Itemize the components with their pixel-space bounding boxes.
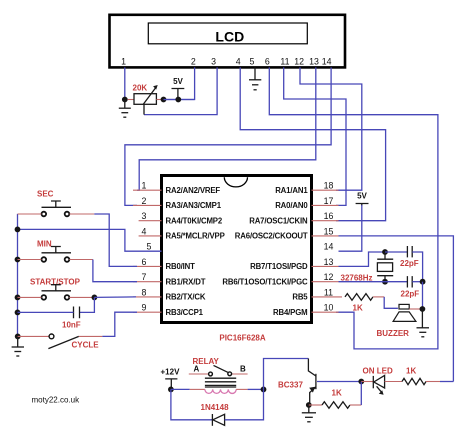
svg-text:RB2/TX/CK: RB2/TX/CK [166,293,206,302]
svg-text:18: 18 [324,181,334,191]
svg-text:7: 7 [142,272,147,282]
svg-text:ON LED: ON LED [363,367,393,376]
wire LCD pin2 down-left to 5V node [164,67,195,99]
resistor 1K base pulldown [309,382,362,409]
node dot caps junction [420,279,426,285]
svg-text:32768Hz: 32768Hz [341,273,373,282]
svg-text:RA6/OSC2/CKOOUT: RA6/OSC2/CKOOUT [235,232,308,241]
svg-text:BUZZER: BUZZER [377,329,410,338]
wire LCD pin13 to PIC pin1 RA2 [137,67,316,190]
wire LCD pin6 to PIC pin10 RB4 [269,67,438,349]
wire PIC pin15 RA6 to ON LED resistor [339,236,454,382]
node dot 5V tap [175,97,181,103]
svg-text:SEC: SEC [37,190,54,199]
svg-text:RA1/AN1: RA1/AN1 [275,186,308,195]
svg-text:6: 6 [265,57,270,67]
relay core lines [205,378,236,387]
svg-text:4: 4 [142,226,147,236]
wire LCD pin1 down to pot node [124,67,126,99]
wire LCD pin11 to PIC pin17 RA0 [284,67,346,205]
svg-text:3: 3 [211,57,216,67]
wire LCD pin3 to pot wiper [144,67,217,114]
pot wiper stem [143,104,145,114]
wire START node down to capacitor [80,297,95,312]
wire MIN to PIC pin7 RB1 [93,260,137,282]
LCD pin numbers [121,57,331,67]
node dot buzzer right [420,306,426,312]
svg-text:+12V: +12V [161,368,181,377]
svg-text:6: 6 [142,257,147,267]
svg-text:1: 1 [142,181,147,191]
node dot START right [92,295,98,301]
svg-text:15: 15 [324,226,334,236]
svg-text:RB4/PGM: RB4/PGM [273,308,307,317]
svg-text:RA5/*MCLR/VPP: RA5/*MCLR/VPP [166,232,225,241]
svg-text:RA7/OSC1/CKIN: RA7/OSC1/CKIN [249,216,308,225]
wire 12V node down to diode [171,389,213,419]
ground at emitter [302,405,316,422]
PIC right pin numbers [324,181,334,313]
svg-text:moty22.co.uk: moty22.co.uk [32,395,81,404]
ground below pot left node [119,100,131,118]
capacitor C1 22pF top [385,246,423,282]
svg-text:CYCLE: CYCLE [72,341,100,350]
ground at LCD pin 5 [249,67,261,89]
svg-text:22pF: 22pF [401,290,420,299]
svg-text:20K: 20K [133,84,148,93]
svg-text:BC337: BC337 [278,381,303,390]
wire PIC pin13 to crystal top node [339,252,385,266]
ground at rail bottom [12,336,24,356]
wire base to LED node [317,381,361,383]
ground at buzzer [417,309,430,337]
svg-text:LCD: LCD [215,28,244,44]
svg-text:9: 9 [142,303,147,313]
wire START to PIC pin8 RB2 [94,296,136,299]
svg-text:MIN: MIN [37,240,52,249]
node dot rail VSS [15,227,21,233]
svg-text:1K: 1K [353,304,363,313]
wire LCD pin12 to PIC pin18 RA1 [300,67,362,190]
wire LCD pin14 to PIC pin2 RA3 [125,67,331,205]
node dot crystal bottom [382,279,388,285]
capacitor C3 10nF [18,307,80,319]
node dot coil right [261,387,267,393]
node dot pot right [161,97,167,103]
svg-text:8: 8 [142,287,147,297]
svg-text:1K: 1K [332,389,342,398]
diode D1 1N4148 [212,359,308,426]
PIC left pin numbers [142,181,152,313]
wire CYCLE to PIC pin9 RB3 [102,312,137,336]
5V supply at pot [172,77,185,100]
svg-text:RB3/CCP1: RB3/CCP1 [166,308,204,317]
svg-text:2: 2 [191,57,196,67]
svg-text:3: 3 [142,211,147,221]
svg-text:11: 11 [280,57,289,67]
svg-text:RA3/AN3/CMP1: RA3/AN3/CMP1 [166,201,222,210]
svg-text:1K: 1K [406,367,416,376]
svg-text:22pF: 22pF [400,259,419,268]
PIC pin labels left [166,186,225,317]
node dot 12V [168,387,174,393]
node dot base LED [358,379,364,385]
wire caps junction down to buzzer node [422,282,424,309]
svg-text:14: 14 [324,242,334,252]
svg-text:10: 10 [324,303,334,313]
svg-text:RB5: RB5 [292,293,308,302]
svg-text:5: 5 [147,242,152,252]
pushbutton SEC [18,190,95,217]
node dot rail CYCLE [15,334,21,340]
svg-text:B: B [240,365,246,374]
node dot rail cap [15,310,21,316]
crystal X1 32768Hz [377,252,393,282]
wire LCD pin4 to PIC pin16 RA7 [240,67,385,220]
svg-text:RA0/AN0: RA0/AN0 [275,201,308,210]
buzzer LS1 [393,304,422,321]
capacitor C2 22pF bottom [385,276,423,287]
node dot pot left [122,97,128,103]
svg-text:12: 12 [324,272,334,282]
5V supply at PIC pin14 [339,192,369,252]
svg-text:10nF: 10nF [62,321,81,330]
LCD module box [110,15,346,68]
left ground rail [17,214,19,337]
resistor 1K buzzer from pin11 RB5 [345,294,398,309]
node dot emitter ground [306,402,312,408]
wire crystal bottom to PIC pin12 [339,281,386,283]
svg-text:1N4148: 1N4148 [201,403,230,412]
svg-text:1: 1 [121,57,126,67]
svg-text:A: A [194,365,200,374]
svg-text:RB0/INT: RB0/INT [166,262,196,271]
LED D2 ON LED [361,367,402,395]
PIC left pin stubs [133,190,162,312]
svg-text:13: 13 [324,257,334,267]
svg-text:RB7/T1OSI/PGD: RB7/T1OSI/PGD [250,262,308,271]
svg-text:16: 16 [324,211,334,221]
svg-text:5: 5 [249,57,254,67]
PIC pin5 VSS wire from ground rail [18,229,162,251]
+12V supply [161,368,181,390]
svg-text:12: 12 [294,57,304,67]
svg-text:11: 11 [324,287,333,297]
wire SEC to PIC pin6 RB0 [94,214,137,266]
node dot rail START [15,295,21,301]
PIC pin labels right [222,186,308,317]
svg-text:RB1/RX/DT: RB1/RX/DT [166,277,206,286]
resistor 1K LED [402,378,453,384]
pushbutton START/STOP [18,278,95,300]
PIC right pin stubs [312,190,343,312]
relay contacts A and B [189,365,248,376]
switch CYCLE [18,334,103,349]
svg-text:RB6/T1OSO/T1CKI/PGC: RB6/T1OSO/T1CKI/PGC [222,277,308,286]
relay coil RL1 [171,389,264,393]
transistor Q1 BC337 [278,359,316,406]
svg-text:5V: 5V [173,77,183,86]
svg-text:5V: 5V [357,192,367,201]
svg-text:2: 2 [142,196,147,206]
node dot crystal top [382,249,388,255]
svg-text:13: 13 [309,57,319,67]
potentiometer 20K [128,85,164,105]
pushbutton MIN [18,240,93,262]
node dot rail MIN [15,257,21,263]
PIC16F628A IC body U1 [162,176,312,323]
svg-text:4: 4 [236,57,241,67]
wire pot right to 5V tap [164,99,195,101]
svg-text:RA2/AN2/VREF: RA2/AN2/VREF [166,186,221,195]
svg-text:RA4/T0KI/CMP2: RA4/T0KI/CMP2 [166,216,223,225]
svg-text:17: 17 [324,196,334,206]
svg-text:14: 14 [322,57,332,67]
svg-text:PIC16F628A: PIC16F628A [219,334,265,343]
